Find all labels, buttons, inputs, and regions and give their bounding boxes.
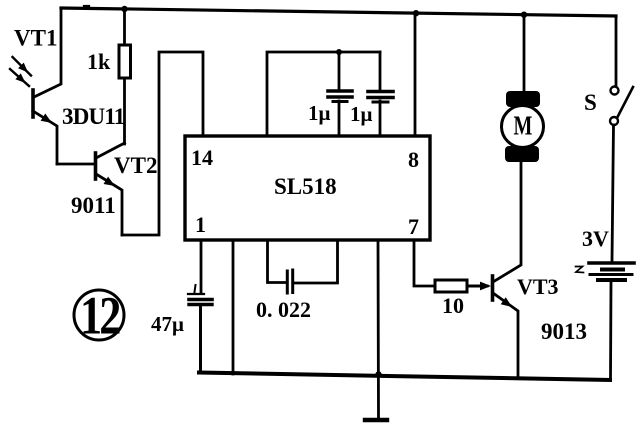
battery polarity scribble <box>576 267 584 273</box>
svg-text:SL518: SL518 <box>274 174 337 199</box>
battery B1 plate short 2 <box>598 278 625 282</box>
capacitor C2 1u lead top <box>379 52 382 89</box>
svg-text:1μ: 1μ <box>308 101 331 125</box>
wire IC pin 7 to resistor 10 <box>414 240 435 286</box>
capacitor C1 1u lead bottom <box>338 101 341 136</box>
capacitor C4 plates <box>286 271 289 293</box>
resistor R1 1k lead top <box>123 9 126 45</box>
svg-text:3DU11: 3DU11 <box>62 104 125 129</box>
motor M circle <box>502 106 544 148</box>
transistor VT3 emitter arrow <box>501 297 515 310</box>
switch S wire from rail <box>615 16 618 86</box>
wire IC pin 8 to rail <box>414 13 417 136</box>
resistor R2 lead right with arrow <box>467 285 487 288</box>
resistor R2 10 body <box>435 280 467 292</box>
capacitor C3 47u plus mark <box>195 285 196 292</box>
wire IC top pin to capacitor bus <box>267 52 380 136</box>
capacitor C2 1u lead bottom <box>379 101 382 136</box>
battery B1 plate short 1 <box>602 268 623 272</box>
capacitor C2 1u plates <box>368 90 393 94</box>
resistor R1 1k lead bottom <box>123 78 126 144</box>
svg-text:VT1: VT1 <box>14 26 57 51</box>
transistor VT2 base wire <box>57 163 94 166</box>
svg-text:1k: 1k <box>87 49 111 74</box>
capacitor C3 47u lead top (pin 1) <box>200 240 203 293</box>
svg-text:9011: 9011 <box>71 193 116 218</box>
transistor VT2 collector lead <box>96 143 125 158</box>
wire IC pin 2 to ground rail <box>232 240 235 374</box>
transistor VT1 phototransistor base bar <box>31 90 35 117</box>
battery B1 plate long 1 <box>589 261 634 265</box>
svg-text:10: 10 <box>442 293 464 318</box>
svg-text:3V: 3V <box>582 226 609 251</box>
wire IC ground pin to bottom rail and ground <box>377 240 380 419</box>
capacitor C4 0.022 bracket left <box>268 240 286 283</box>
label M <box>514 112 533 142</box>
wire top supply rail <box>61 8 616 16</box>
capacitor C1 1u lead top <box>338 52 341 89</box>
svg-text:M: M <box>514 112 533 142</box>
svg-text:0. 022: 0. 022 <box>256 297 311 322</box>
transistor VT1 emitter lead <box>33 111 57 164</box>
transistor VT1 collector lead <box>34 8 61 97</box>
capacitor C4 bracket right <box>295 240 338 283</box>
transistor VT1 emitter arrow <box>41 114 55 127</box>
transistor VT3 emitter lead <box>493 293 518 377</box>
svg-text:VT2: VT2 <box>114 153 157 178</box>
svg-text:47μ: 47μ <box>151 312 184 336</box>
transistor VT3 collector lead <box>493 161 521 282</box>
svg-text:VT3: VT3 <box>517 274 559 299</box>
svg-text:S: S <box>584 90 597 115</box>
svg-text:7: 7 <box>408 214 419 239</box>
figure badge number 12 <box>80 285 120 345</box>
node junction rail/1k <box>121 6 127 12</box>
node junction rail/ground <box>375 371 381 377</box>
light arrow 1 <box>13 57 32 76</box>
node junction cap C1 on bus <box>336 49 342 55</box>
battery B1 lead bottom <box>609 282 612 379</box>
ground symbol <box>365 418 387 422</box>
svg-text:9013: 9013 <box>541 319 587 344</box>
transistor VT3 base bar <box>491 276 495 300</box>
wire bottom ground rail <box>199 373 610 381</box>
svg-text:8: 8 <box>408 147 419 172</box>
battery B1 plate long 2 <box>590 273 632 276</box>
svg-text:1: 1 <box>195 212 206 237</box>
transistor VT2 base bar <box>94 153 98 179</box>
wire VT2 emitter to IC pin 14 <box>122 52 203 235</box>
svg-text:14: 14 <box>191 145 213 170</box>
light arrow 2 <box>10 69 29 86</box>
svg-text:12: 12 <box>80 285 120 345</box>
node junction rail/motor <box>521 12 527 18</box>
switch S blade <box>617 87 633 118</box>
capacitor C3 47u plates <box>188 293 204 295</box>
switch S wire down <box>612 125 614 261</box>
op-amp U1 SL518 body <box>185 136 430 240</box>
figure badge circle <box>74 290 124 340</box>
motor M bottom brush <box>505 146 539 162</box>
svg-text:1μ: 1μ <box>350 102 373 126</box>
node junction rail/pin8 wire <box>413 10 419 16</box>
stray scan mark on rail <box>84 5 89 7</box>
capacitor C3 47u lead bottom <box>199 305 202 373</box>
transistor VT2 emitter arrow <box>104 177 118 190</box>
motor M lead top <box>523 14 526 92</box>
switch S top contact <box>611 87 619 95</box>
resistor R1 1k body <box>119 45 131 78</box>
motor M top brush <box>506 91 540 107</box>
transistor VT2 emitter lead <box>96 174 122 235</box>
capacitor C1 1u plates <box>328 89 352 93</box>
switch S bottom contact <box>610 117 618 125</box>
